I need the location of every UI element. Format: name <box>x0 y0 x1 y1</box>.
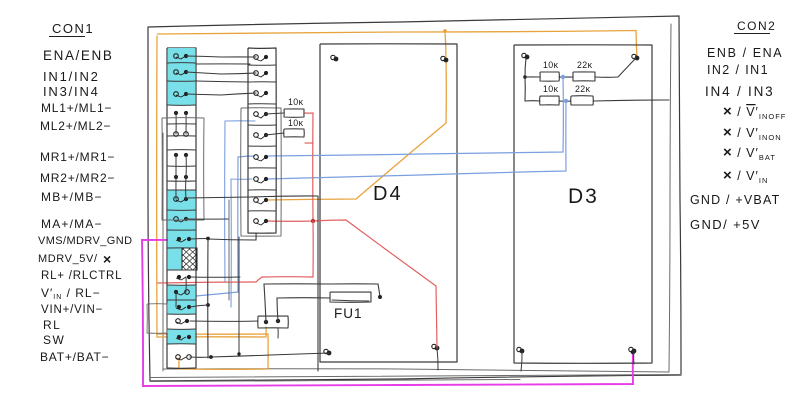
module D3 pin bottom-left <box>520 349 525 354</box>
wire IN1 row link <box>186 72 256 74</box>
wire blue vertical mid A <box>225 120 255 122</box>
board inner border bottom edge <box>163 369 669 372</box>
module D4 pin top-right <box>444 58 449 63</box>
wire orange net CON bottom loop <box>157 334 268 369</box>
wire blue vertical mid B <box>231 178 252 180</box>
svg-text:MR2+/MR2−: MR2+/MR2− <box>40 171 115 185</box>
junction red bus <box>311 219 315 223</box>
junction blue row1 <box>561 75 565 79</box>
module D3 outline <box>514 45 652 364</box>
svg-text:IN4 / IN3: IN4 / IN3 <box>705 84 774 99</box>
resistor R3a 10k <box>540 72 559 81</box>
wire orange net D4 to header row <box>266 31 446 200</box>
junction x208 mid <box>206 303 210 307</box>
wire blue net VINON sense <box>196 156 254 296</box>
wire 10k R3a left lead <box>525 76 540 78</box>
module D4 pin bottom-left <box>327 351 332 356</box>
svg-text:ENB / ENA: ENB / ENA <box>707 46 783 60</box>
resistor R4a 22k <box>573 72 595 81</box>
board bottom rail <box>150 375 681 378</box>
module D3 pin bottom-right stub <box>633 351 635 364</box>
svg-text:RL+ /RLCTRL: RL+ /RLCTRL <box>41 270 122 282</box>
svg-text:10κ: 10κ <box>543 84 559 94</box>
module D3 pin top-left <box>525 55 530 60</box>
junction x208 top <box>206 237 210 241</box>
wire R2 lead from J2 <box>266 133 284 135</box>
connector J3 pin 2 stub <box>277 328 279 338</box>
wire J3 pin2 to fuse left <box>277 298 330 321</box>
wire 10k R3b left lead <box>525 100 540 102</box>
wire vertical x208 <box>207 239 209 358</box>
svg-text:MR1+/MR1−: MR1+/MR1− <box>40 150 115 164</box>
wire magenta-row right dot link <box>191 238 208 241</box>
module D3 pin bottom-left stub <box>521 351 522 371</box>
svg-text:22κ: 22κ <box>577 60 593 70</box>
connector CON1 internal links ML <box>175 113 177 134</box>
wire ENA row link <box>186 56 256 57</box>
svg-text:RL: RL <box>43 318 61 332</box>
wire blue vertical mid A2 <box>224 121 226 282</box>
svg-text:22κ: 22κ <box>575 84 591 94</box>
wire red R2 lead <box>305 142 313 144</box>
svg-text:IN2 / IN1: IN2 / IN1 <box>707 63 769 77</box>
connector J3 pin 2 <box>276 319 280 323</box>
board inner border left edge <box>162 133 164 371</box>
wire magenta battery net <box>142 240 633 386</box>
svg-text:IN3/IN4: IN3/IN4 <box>43 84 100 99</box>
connector CON1 internal links RL <box>175 292 177 307</box>
fuse right terminal <box>378 295 382 299</box>
wire R3b to R4b <box>559 100 571 102</box>
connector J2 cell dividers <box>248 64 276 66</box>
module D4 outline <box>320 44 457 362</box>
wire vertical x229 <box>228 200 230 300</box>
magenta net end junction <box>631 350 636 355</box>
wire orange net VBAT top rail <box>158 31 638 59</box>
wire blue net row1 long run <box>266 78 563 156</box>
wire row277 stub <box>190 276 240 278</box>
group box around CON2 strip <box>241 108 282 236</box>
svg-text:VIN+/VIN−: VIN+/VIN− <box>41 304 103 316</box>
svg-text:10κ: 10κ <box>288 97 304 107</box>
wire RL row to bus <box>190 305 208 307</box>
connector J2 strip body <box>248 48 276 233</box>
module D4 pin bottom-right <box>435 346 440 351</box>
svg-text:ML1+/ML1−: ML1+/ML1− <box>41 101 112 115</box>
junction x239 bottom <box>237 352 240 355</box>
junction D3 divider left <box>523 75 527 79</box>
connector CON1 pins <box>174 54 179 59</box>
board outer border <box>148 16 681 381</box>
wire blue net row2 long run <box>266 102 566 179</box>
connector CON1 crosshatch cell <box>182 224 197 292</box>
wire vertical x239 <box>238 237 240 354</box>
module D4 pin top-left <box>334 57 339 62</box>
svg-text:GND / +VBAT: GND / +VBAT <box>690 193 780 207</box>
junction SW row <box>209 355 213 359</box>
connector CON1 cell dividers <box>167 62 196 64</box>
wire ENA row link lower <box>196 63 250 65</box>
wire MB2 row stub <box>186 218 229 220</box>
svg-text:CON2: CON2 <box>737 19 776 33</box>
resistor R2 10k <box>284 129 305 137</box>
connector J3 pin 1 <box>264 320 268 324</box>
wire MB row to vertical bus <box>186 196 318 198</box>
svg-text:FU1: FU1 <box>334 306 363 321</box>
svg-text:ML2+/ML2−: ML2+/ML2− <box>40 119 111 133</box>
svg-text:ENA/ENB: ENA/ENB <box>43 48 113 63</box>
fuse FU1 inner line <box>332 300 369 301</box>
wire R4a to D3 top-right pin <box>595 58 636 77</box>
board bottom rail 2 <box>151 380 520 382</box>
wire IN1 row link lower <box>196 81 250 82</box>
wire R1 lead from J2 <box>266 113 284 114</box>
svg-text:BAT+/BAT−: BAT+/BAT− <box>40 350 109 364</box>
svg-text:SW: SW <box>43 333 65 347</box>
junction blue row2 <box>564 99 568 103</box>
wire red net to D4 pin <box>267 220 437 348</box>
group box around CON1 motor rows <box>162 118 204 220</box>
group box around CON1 lower rows <box>147 304 167 334</box>
svg-text:MB+/MB−: MB+/MB− <box>41 190 103 204</box>
wire red net to CON1 row <box>158 221 313 283</box>
connector CON1 internal links MR <box>175 155 177 177</box>
wire R4b output to board edge <box>593 100 669 101</box>
svg-text:IN1/IN2: IN1/IN2 <box>43 69 100 84</box>
svg-text:V′IN / RL−: V′IN / RL− <box>41 286 101 301</box>
board inner border right edge <box>669 24 671 372</box>
svg-text:MA+/MA−: MA+/MA− <box>41 217 103 231</box>
resistor R1 10k <box>284 109 304 117</box>
wire R3a to R4a <box>559 76 573 78</box>
svg-text:VMS/MDRV_GND: VMS/MDRV_GND <box>38 235 132 247</box>
wire SW row to D4 <box>190 353 329 357</box>
svg-text:×: × <box>103 251 111 267</box>
fuse FU1 body <box>330 292 371 302</box>
wire orange net left vertical <box>157 36 266 337</box>
module D3 pin bottom-right <box>632 349 637 354</box>
module D3 pin top-right <box>635 56 640 61</box>
wire J2 bottom out <box>208 233 256 240</box>
resistor R3b 10k <box>540 96 560 105</box>
connector CON1 internal links MB <box>175 177 177 199</box>
wire blue vertical mid B2 <box>230 179 232 307</box>
svg-text:10κ: 10κ <box>288 118 304 128</box>
svg-text:10κ: 10κ <box>543 60 559 70</box>
junction orange top rail <box>443 29 447 33</box>
connector J3 box <box>258 316 289 328</box>
wire vertical bus x318 <box>317 196 319 371</box>
resistor R4b 22k <box>571 96 594 105</box>
wire VIN row to fuse box <box>190 320 258 322</box>
svg-text:D4: D4 <box>373 183 403 205</box>
connector CON1 highlighted cells <box>168 48 195 63</box>
module D4 pin bottom-right stub <box>437 348 438 370</box>
svg-text:CON1: CON1 <box>52 21 94 36</box>
wire J3 pin1 to fuse right <box>264 284 380 322</box>
svg-text:D3: D3 <box>568 185 599 208</box>
connector J2 pins <box>254 55 259 60</box>
wire IN3 row link <box>186 93 256 95</box>
svg-text:GND/ +5V: GND/ +5V <box>690 217 761 232</box>
connector CON1 strip body <box>167 48 196 368</box>
wire red R1 lead to bus <box>305 113 313 221</box>
wire D3 left pin to dividers <box>525 58 526 101</box>
svg-text:MDRV_5V/: MDRV_5V/ <box>38 253 98 265</box>
